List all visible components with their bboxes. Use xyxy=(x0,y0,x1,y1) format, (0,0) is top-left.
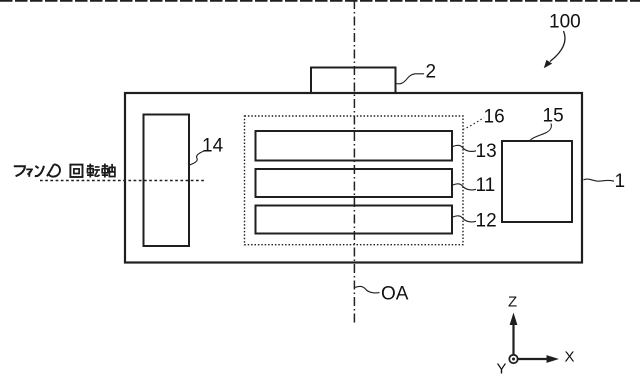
svg-text:13: 13 xyxy=(476,141,497,162)
svg-text:2: 2 xyxy=(426,62,437,83)
svg-text:X: X xyxy=(565,349,575,366)
svg-text:100: 100 xyxy=(549,12,581,33)
svg-text:14: 14 xyxy=(202,136,224,157)
svg-text:16: 16 xyxy=(484,107,505,128)
svg-text:Z: Z xyxy=(508,294,517,311)
svg-text:12: 12 xyxy=(476,211,497,232)
svg-text:1: 1 xyxy=(615,171,626,192)
svg-text:15: 15 xyxy=(543,106,564,127)
svg-text:Y: Y xyxy=(497,361,507,378)
svg-text:OA: OA xyxy=(381,284,409,305)
svg-text:11: 11 xyxy=(476,175,496,196)
